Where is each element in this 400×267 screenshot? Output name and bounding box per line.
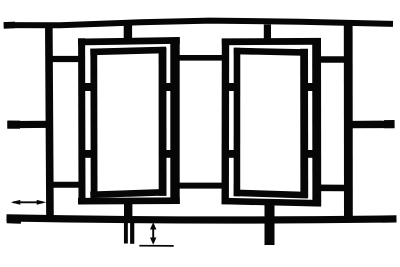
- right sash inner frame right edge: [300, 49, 308, 198]
- left sash inner frame right edge: [159, 48, 167, 196]
- vertical dimension arrow line: [152, 226, 154, 241]
- right sash outer frame top edge: [222, 38, 321, 45]
- left sash outer frame left edge: [78, 38, 85, 204]
- right sash outer frame right edge: [312, 38, 321, 206]
- horizontal dimension arrowhead left: [11, 200, 21, 205]
- left sash outer frame bottom edge: [78, 197, 180, 204]
- right mid rail: [349, 121, 395, 129]
- top stub over right sash: [264, 25, 271, 44]
- right jamb: [344, 23, 353, 222]
- left sash inner frame top edge: [90, 50, 166, 52]
- left sash outer frame top edge: [78, 40, 180, 42]
- bottom stub under left sash: [124, 203, 132, 218]
- upper connector right sash to right jamb: [314, 56, 346, 62]
- bottom stub under right sash: [265, 203, 275, 246]
- lower bridge between sashes: [177, 183, 226, 189]
- glazing tick left sash right upper: [165, 83, 172, 91]
- left mid rail end blob: [7, 120, 20, 128]
- glazing tick left sash left lower: [84, 150, 93, 158]
- right sash outer frame left edge: [221, 39, 229, 205]
- horizontal dimension arrowhead right: [37, 200, 47, 205]
- glazing tick left sash right lower: [165, 150, 172, 158]
- glazing tick right sash right lower: [307, 150, 314, 158]
- glazing tick left sash left upper: [84, 83, 93, 91]
- right sash outer frame bottom edge: [222, 201, 321, 203]
- bottom twin line A under rail left: [124, 219, 128, 244]
- vertical dimension arrowhead top: [150, 222, 156, 229]
- lower connector right sash to right jamb: [314, 185, 346, 192]
- top rail: [4, 21, 393, 26]
- left sash inner frame left edge: [90, 49, 97, 198]
- left mid rail: [7, 121, 49, 128]
- glazing tick right sash left lower: [228, 150, 236, 158]
- left sash outer frame right edge: [170, 37, 179, 204]
- glazing tick right sash left upper: [228, 83, 236, 91]
- vertical dimension arrowhead bottom: [150, 238, 156, 245]
- bottom twin line B under rail left: [130, 219, 134, 244]
- left jamb: [49, 23, 50, 222]
- top stub over left sash: [124, 25, 132, 43]
- right sash inner frame bottom edge: [234, 193, 308, 195]
- top rail left end blob: [4, 22, 15, 29]
- right mid rail end blob: [384, 120, 395, 128]
- upper connector left jamb to left sash: [52, 56, 79, 62]
- bottom rail: [7, 218, 397, 220]
- vertical dimension base line: [139, 245, 173, 247]
- right sash inner frame left edge: [234, 48, 241, 196]
- bottom rail left end blob: [7, 215, 21, 224]
- horizontal dimension arrow line: [13, 201, 43, 203]
- left sash inner frame bottom edge: [90, 192, 166, 195]
- lower connector left jamb to left sash: [52, 182, 79, 188]
- upper bridge between sashes: [177, 55, 226, 61]
- glazing tick right sash right upper: [307, 83, 314, 91]
- right sash inner frame top edge: [234, 51, 308, 53]
